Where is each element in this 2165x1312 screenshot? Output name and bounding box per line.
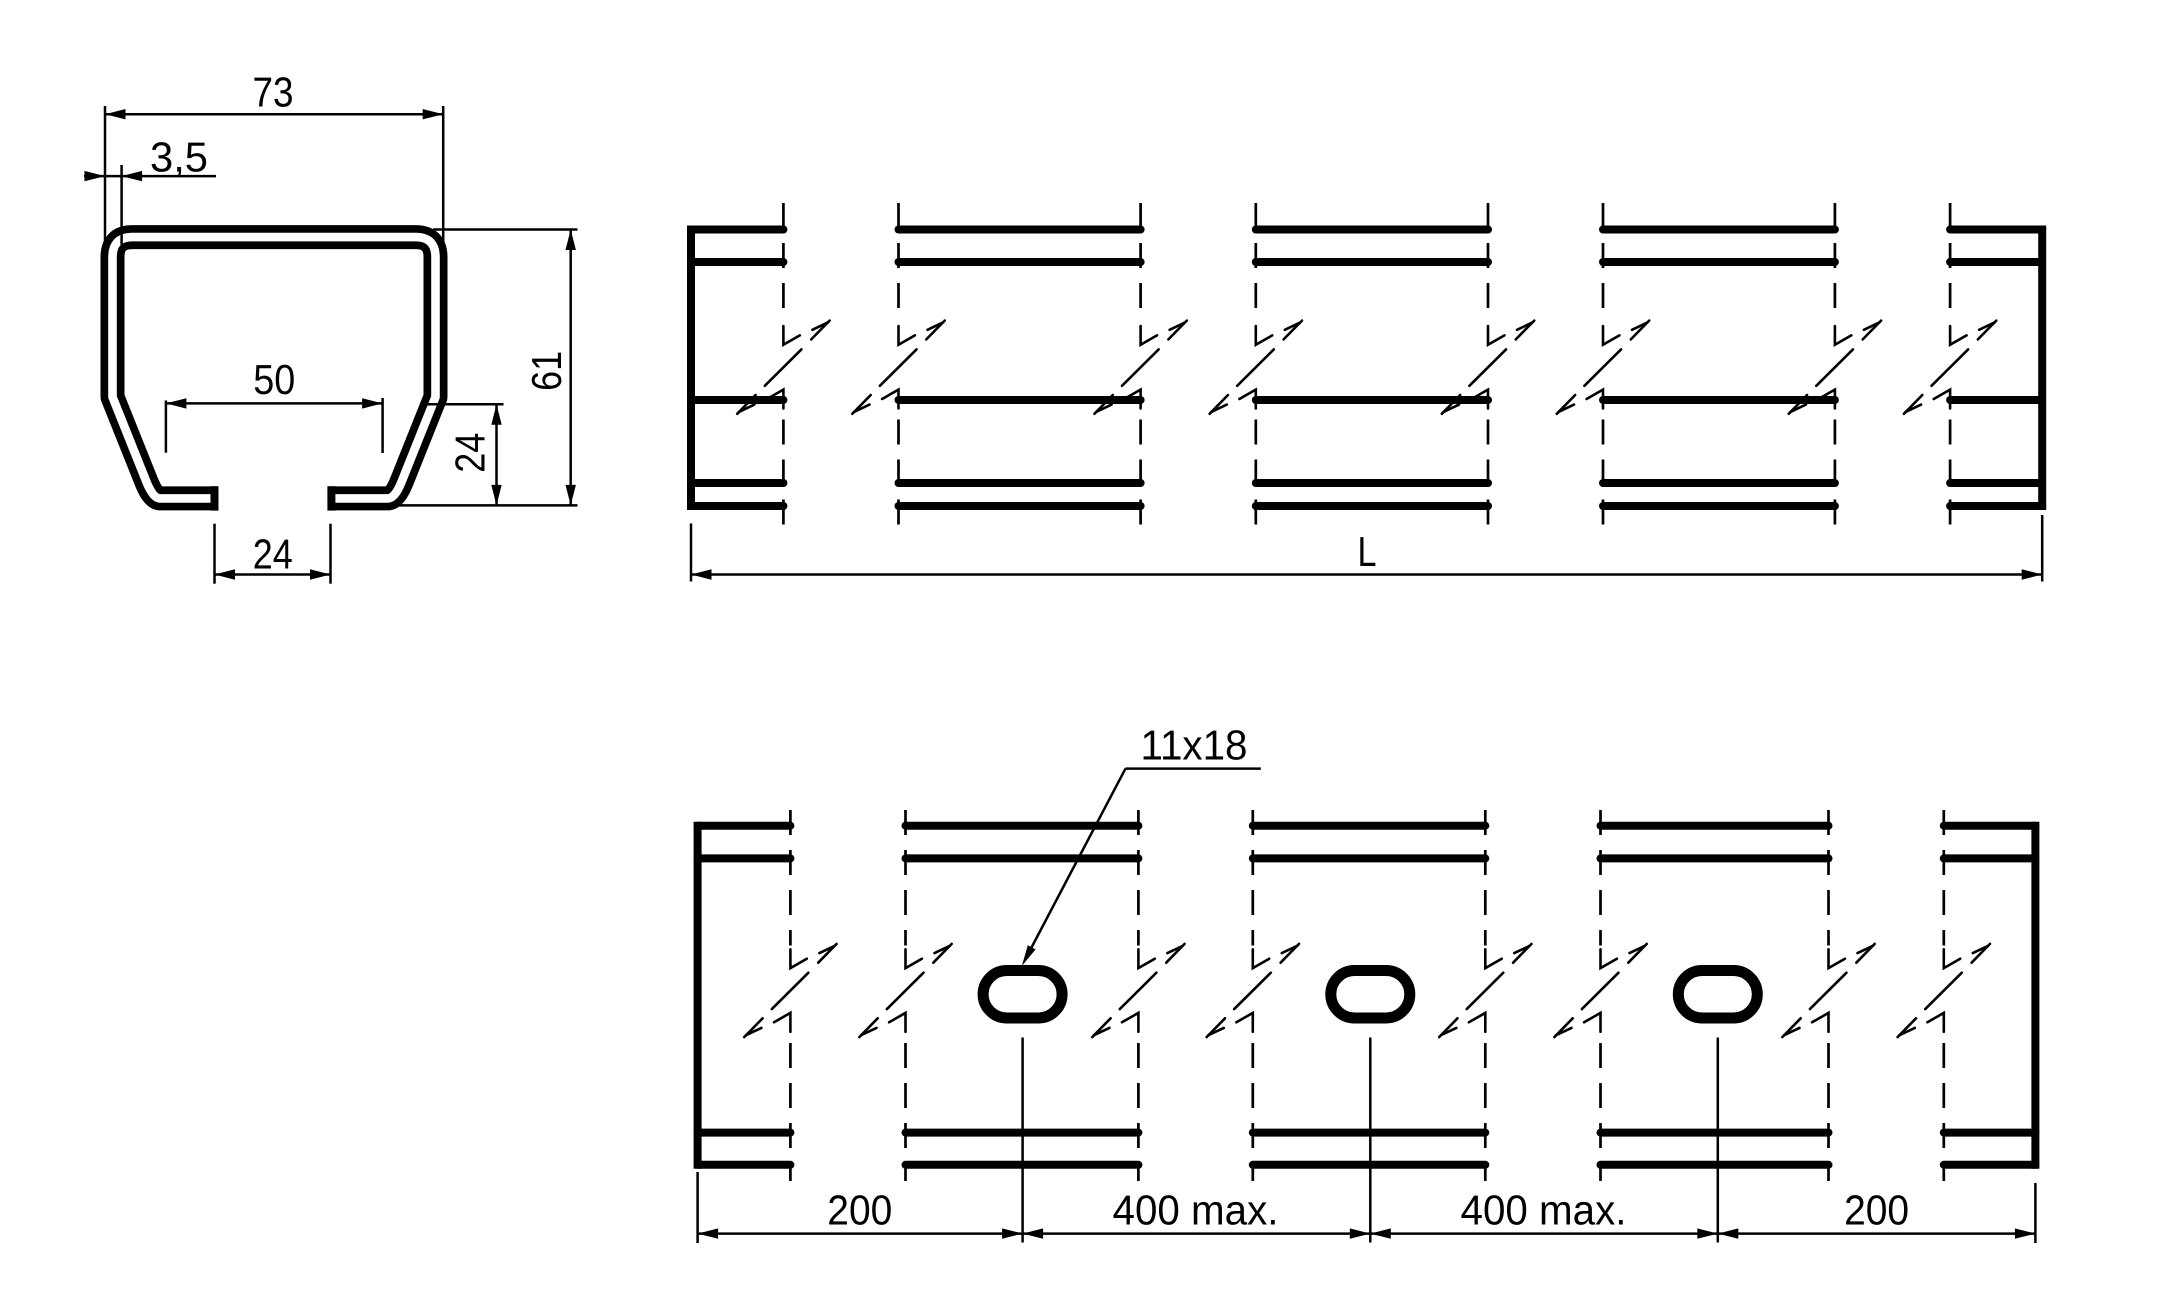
svg-text:61: 61 — [523, 351, 570, 391]
svg-text:400 max.: 400 max. — [1113, 1187, 1279, 1234]
svg-text:50: 50 — [253, 356, 295, 403]
svg-text:11x18: 11x18 — [1141, 721, 1248, 768]
svg-text:200: 200 — [827, 1187, 892, 1234]
svg-text:200: 200 — [1844, 1187, 1909, 1234]
svg-text:24: 24 — [253, 531, 293, 578]
svg-text:73: 73 — [253, 69, 294, 116]
svg-text:24: 24 — [447, 433, 494, 473]
svg-text:400 max.: 400 max. — [1461, 1187, 1627, 1234]
svg-text:L: L — [1358, 528, 1377, 575]
svg-text:3,5: 3,5 — [150, 134, 208, 181]
